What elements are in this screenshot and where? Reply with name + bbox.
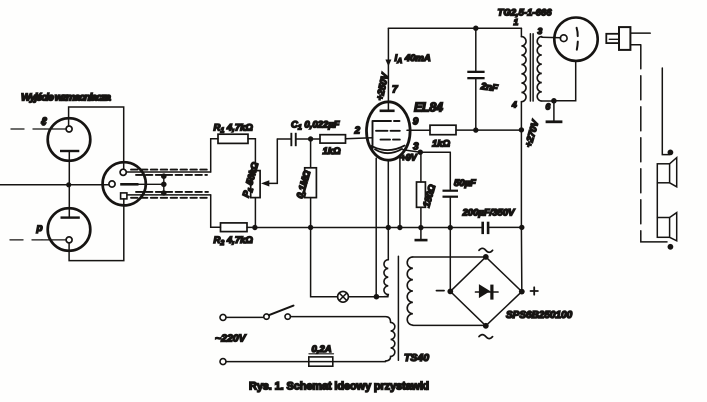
ground rail: [252, 225, 481, 231]
svg-text:p: p: [36, 223, 43, 234]
svg-text:IA 40mA: IA 40mA: [395, 53, 431, 65]
output socket: [554, 18, 597, 61]
svg-text:+270V: +270V: [523, 118, 541, 148]
mains switch: [264, 306, 294, 320]
tube EL84 envelope: [367, 101, 444, 161]
bridge internal diode: [475, 284, 498, 300]
label minus: [437, 290, 445, 292]
wire: terminal to fuse: [226, 361, 309, 363]
mains terminal lower: [220, 359, 226, 365]
wire: P sleeve stem: [68, 185, 70, 217]
wire: plug top lead: [630, 32, 650, 34]
DIN connector (5-pin plug): [103, 162, 146, 205]
wire: screen resistor to +270V riser: [456, 127, 524, 133]
resistor R2 4,7kOhm: [214, 223, 254, 247]
svg-text:9: 9: [413, 117, 419, 128]
resistor R1 4,7kOhm: [214, 123, 254, 144]
wire: common input bus (left edge to DIN left pin): [0, 182, 109, 187]
wire: L sleeve stem: [68, 152, 70, 185]
wire: speaker link: [656, 183, 658, 218]
transformer TG core: [530, 34, 533, 101]
svg-text:+9V: +9V: [401, 153, 418, 163]
label ~ (bottom): [479, 335, 493, 339]
wire: TG secondary bottom node: [542, 98, 557, 104]
svg-text:P1 50kΩ: P1 50kΩ: [241, 160, 263, 199]
transformer TS40 HV winding: [407, 257, 413, 325]
svg-text:SPS6B250100: SPS6B250100: [506, 310, 573, 321]
wire: heater pin to pilot lamp (crosses rail): [375, 158, 377, 296]
svg-text:180Ω: 180Ω: [421, 183, 438, 209]
wire: pin 9 to screen resistor: [407, 129, 430, 131]
current arrow Ia 40mA: [385, 53, 430, 67]
resistor 180 Ohm (cathode): [417, 152, 439, 227]
svg-text:~220V: ~220V: [215, 333, 247, 345]
svg-text:50µF: 50µF: [454, 178, 476, 189]
resistor 1kOhm (grid stopper): [320, 135, 346, 157]
svg-text:TS40: TS40: [404, 352, 429, 364]
wire: heater pin to heater winding: [387, 160, 389, 260]
wire: switch to TS40 primary top: [290, 317, 390, 323]
wire: C1 to grid resistor / 0,1M node: [297, 136, 320, 141]
svg-text:Wyjście wzmacniacza: Wyjście wzmacniacza: [21, 92, 111, 104]
connector P (right channel input jack): [10, 208, 90, 251]
wire: L tip loop to DIN top pin: [69, 107, 124, 169]
capacitor 50uF (cathode bypass): [443, 152, 477, 227]
wire: DIN bottom pin loop to P tip: [69, 199, 124, 261]
wire: cathode internal stub to rail: [399, 157, 401, 228]
svg-text:1kΩ: 1kΩ: [432, 139, 451, 150]
potentiometer P1 50kOhm: [241, 160, 263, 227]
tube control grid (dashed rows): [373, 121, 400, 149]
capacitor C1 0,022uF: [290, 120, 339, 147]
transformer TG2,5-1-666 primary: [511, 17, 526, 110]
wire: secondary bottom to socket sleeve: [554, 61, 576, 101]
wire: HV winding bottom to bridge ~: [413, 324, 486, 326]
wire: lamp to heater winding bottom: [348, 294, 388, 300]
svg-text:7: 7: [392, 85, 398, 96]
wire: fuse to TS40 primary bottom: [333, 361, 386, 363]
transformer TG secondary: [537, 26, 550, 112]
wire: wiper arm with arrow: [261, 139, 277, 186]
svg-text:6: 6: [546, 102, 551, 112]
svg-text:TG2,5-1-666: TG2,5-1-666: [498, 7, 553, 18]
wire: wiper riser to C1: [277, 138, 290, 140]
transformer TS40 mains primary: [386, 322, 395, 361]
svg-text:2nF: 2nF: [479, 81, 498, 94]
wire: anode top rail to output transformer: [388, 26, 521, 31]
speaker 1: [657, 150, 676, 187]
wire: grid resistor to tube pin 2: [346, 138, 373, 139]
svg-text:1: 1: [514, 17, 519, 27]
mains terminal upper: [220, 314, 226, 320]
node: shield tie (DIN sleeve to both cable screens): [139, 173, 167, 195]
shielded cable to R2 (screen dashes + core): [127, 192, 211, 198]
capacitor 200uF/350V (filter): [462, 208, 525, 235]
label plus: [531, 287, 538, 294]
svg-text:EL84: EL84: [414, 101, 443, 115]
tube cathode arcs: [372, 146, 405, 154]
speaker 2: [657, 213, 676, 250]
svg-text:ℓ: ℓ: [41, 116, 47, 128]
svg-text:200µF/350V: 200µF/350V: [462, 208, 516, 219]
svg-text:2: 2: [354, 126, 361, 137]
resistor 0,1MOhm (grid leak): [295, 139, 317, 228]
wire: +270V riser (transformer pin 4 to bridge plus): [520, 102, 522, 289]
svg-text:0,1MΩ: 0,1MΩ: [295, 169, 314, 200]
svg-text:R2 4,7kΩ: R2 4,7kΩ: [214, 235, 254, 247]
resistor 1kOhm (screen): [430, 125, 456, 149]
svg-text:R1 4,7kΩ: R1 4,7kΩ: [214, 123, 254, 135]
fuse 0,2A: [309, 344, 334, 366]
wire: bridge minus riser to rail: [449, 228, 451, 289]
svg-text:4: 4: [511, 100, 517, 110]
wire: cable down to R2: [211, 195, 221, 227]
wire: 0,1M line down to pilot lamp: [311, 228, 338, 297]
wire: speaker feed (right vertical): [662, 68, 669, 155]
mains plug symbol: [606, 27, 630, 50]
pilot lamp: [338, 291, 349, 302]
wire: R2 to rail junction: [247, 226, 255, 228]
wire: terminal to switch: [226, 316, 264, 318]
svg-text:C1 0,022µF: C1 0,022µF: [291, 120, 340, 132]
wire: pin 3 cathode node: [401, 150, 451, 163]
svg-text:3: 3: [538, 26, 543, 36]
ground symbol at TG secondary: [546, 101, 563, 123]
tube anode plate + riser: [380, 28, 398, 112]
transformer TS40 heater winding: [384, 260, 388, 297]
bridge rectifier SPS6B250100: [447, 254, 572, 329]
ground symbol below cathode resistor: [415, 228, 428, 242]
svg-text:1kΩ: 1kΩ: [323, 146, 342, 157]
svg-text:Rys. 1. Schemat ideowy przysta: Rys. 1. Schemat ideowy przystawki: [249, 381, 429, 393]
connector L (left channel input jack): [11, 116, 90, 161]
shielded cable to R1 (screen dashes + core): [127, 170, 211, 175]
capacitor 2nF: [467, 28, 498, 130]
label ~ (top): [479, 248, 493, 252]
transformer TS40 core: [397, 256, 399, 360]
wire: R1 to potentiometer top: [248, 139, 255, 171]
wire: cable up to R1: [211, 139, 218, 172]
wire: TG secondary top to output socket: [542, 36, 561, 39]
wire: plug bottom lead (dashed run to speakers): [630, 45, 640, 234]
wire: speaker return bottom: [641, 234, 667, 242]
wire: HV winding top to bridge ~: [413, 256, 486, 258]
